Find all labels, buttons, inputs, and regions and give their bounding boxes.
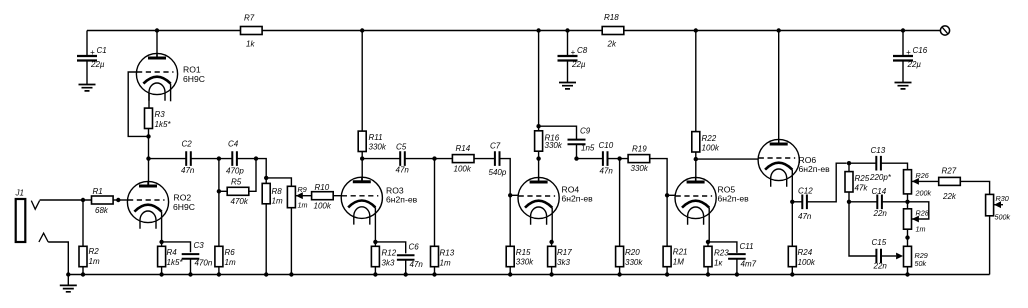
svg-text:1M: 1M	[673, 258, 684, 267]
svg-text:R30: R30	[996, 194, 1009, 203]
svg-text:330k: 330k	[545, 141, 563, 150]
junction R28-R29	[905, 235, 909, 239]
svg-text:470p: 470p	[226, 167, 244, 176]
resistor R20	[616, 246, 644, 267]
wire R28 to R29	[907, 229, 909, 246]
wire R16 column to rail	[538, 31, 540, 131]
resistor R18	[602, 13, 624, 49]
potentiometer R28	[904, 209, 912, 229]
capacitor C15	[872, 238, 888, 271]
wire R29 to rail	[907, 267, 909, 275]
capacitor C9	[568, 127, 595, 153]
wire C6 to rail	[405, 260, 407, 275]
capacitor C2	[181, 140, 195, 176]
junction rail-C11	[735, 272, 739, 276]
ground at C8	[559, 83, 576, 89]
wire anode to C10	[577, 158, 603, 160]
capacitor C4	[226, 140, 244, 176]
junction R5 left	[217, 189, 221, 193]
tube RO6 6н2п triode	[758, 139, 830, 201]
wire to R5	[219, 190, 227, 192]
ground main	[60, 285, 77, 291]
junction R6 tap	[217, 156, 221, 160]
wire into RO5 grid	[667, 194, 676, 196]
svg-text:6H9C: 6H9C	[173, 202, 195, 212]
svg-text:R22: R22	[702, 134, 717, 143]
tube RO1 6H9C triode	[136, 53, 205, 101]
junction R26-R28 node	[905, 200, 909, 204]
svg-text:R14: R14	[456, 144, 471, 153]
svg-text:3k3: 3k3	[382, 259, 395, 268]
resistor R15	[506, 246, 534, 266]
resistor R25	[845, 172, 870, 193]
junction rail-R16	[536, 28, 540, 32]
junction RO4 anode node	[536, 156, 540, 160]
wire C15 to R29 wiper	[881, 255, 896, 257]
svg-text:47n: 47n	[600, 167, 614, 176]
svg-text:1m: 1m	[298, 201, 308, 210]
svg-text:1m: 1m	[89, 257, 100, 266]
junction rail-ground	[66, 272, 70, 276]
svg-text:+: +	[571, 48, 576, 57]
junction rail-C3	[188, 272, 192, 276]
wire R26 bottom stub	[907, 194, 909, 202]
svg-text:+: +	[906, 48, 911, 57]
svg-text:50k: 50k	[915, 259, 927, 268]
capacitor C6	[397, 243, 423, 270]
tube RO3 6н2п triode	[341, 177, 417, 242]
svg-text:R28: R28	[916, 209, 929, 218]
svg-text:1m: 1m	[272, 197, 283, 206]
svg-text:47n: 47n	[410, 260, 424, 269]
resistor R6	[215, 246, 236, 267]
svg-text:RO2: RO2	[174, 193, 192, 203]
resistor R3	[145, 108, 172, 129]
svg-text:C11: C11	[740, 242, 754, 251]
capacitor C10	[599, 141, 614, 176]
svg-text:2k: 2k	[607, 40, 617, 49]
wire cathode to R12	[374, 242, 376, 246]
capacitor C13	[869, 146, 892, 182]
junction at RO2 grid wire	[116, 198, 120, 202]
svg-text:22n: 22n	[873, 209, 888, 218]
junction R1-R2	[81, 198, 85, 202]
wire to C14	[849, 201, 877, 203]
svg-text:100k: 100k	[454, 165, 472, 174]
wire C7 to RO4 grid	[500, 159, 511, 196]
wire RO6 anode to rail	[778, 31, 780, 145]
svg-text:R18: R18	[604, 13, 619, 22]
wire R22 column to rail	[695, 31, 697, 132]
wire R10 to RO3 grid	[333, 195, 341, 197]
svg-text:R5: R5	[231, 178, 242, 187]
wire R21 to rail	[666, 267, 668, 275]
svg-text:47k: 47k	[855, 184, 869, 193]
wire R16 to RO4 anode	[538, 151, 540, 183]
svg-text:6H9C: 6H9C	[183, 74, 205, 84]
svg-text:C12: C12	[798, 187, 813, 196]
capacitor C12	[798, 187, 813, 222]
wire R15 column	[509, 195, 511, 246]
wire R20 to rail	[619, 267, 621, 275]
junction rail-R11	[360, 28, 364, 32]
wire RO1 cathode to R3	[148, 93, 150, 108]
potentiometer R30	[986, 194, 994, 215]
wire C13 to R26	[881, 163, 908, 170]
wire R25 top stub	[848, 163, 850, 171]
resistor R19	[628, 145, 650, 174]
svg-text:6н2п-ев: 6н2п-ев	[799, 164, 831, 174]
svg-text:C4: C4	[228, 140, 239, 149]
svg-text:R27: R27	[942, 167, 957, 176]
svg-text:C7: C7	[490, 142, 501, 151]
wire R15 to rail	[509, 267, 511, 275]
ground at C16	[895, 83, 912, 89]
junction R20 tap	[617, 156, 621, 160]
svg-text:1n5: 1n5	[581, 144, 595, 153]
junction rail-R29	[905, 272, 909, 276]
wire cathode to R23	[707, 242, 709, 246]
wire R30 wiper stub	[994, 204, 1003, 206]
junction rail-R4	[159, 272, 163, 276]
svg-text:RO1: RO1	[183, 65, 201, 75]
wire R14 to C7	[474, 158, 495, 160]
wire anode node to C2	[149, 158, 187, 160]
wire R17 to rail	[551, 267, 553, 275]
tube RO5 6н2п triode	[675, 177, 749, 242]
svg-text:22µ: 22µ	[907, 60, 922, 69]
svg-text:470n: 470n	[195, 259, 213, 268]
R29 wiper arrow	[896, 253, 903, 260]
junction rail-R24	[790, 272, 794, 276]
wire R11 to rail	[361, 31, 363, 132]
svg-text:330k: 330k	[516, 257, 534, 266]
junction R5 right	[254, 156, 258, 160]
wire into RO4 grid	[510, 194, 518, 196]
wire C1 to ground	[86, 61, 88, 85]
wire C16 to rail	[902, 31, 904, 57]
resistor R13	[431, 246, 455, 267]
junction R25 top	[847, 161, 851, 165]
wire R3 to RO2 anode	[148, 129, 150, 187]
svg-text:C2: C2	[182, 140, 193, 149]
svg-text:100k: 100k	[798, 258, 816, 267]
svg-text:R2: R2	[89, 247, 100, 256]
wire RO1 anode to rail	[156, 31, 158, 59]
junction rail-R23	[706, 272, 710, 276]
svg-text:330k: 330k	[625, 258, 643, 267]
wire top supply rail	[87, 30, 940, 32]
capacitor C14	[872, 187, 888, 218]
resistor R11	[358, 131, 387, 151]
wire R22 to RO5 anode	[695, 152, 697, 183]
junction RO2 anode node	[146, 156, 150, 160]
svg-text:3k3: 3k3	[557, 258, 570, 267]
capacitor C8	[558, 46, 588, 69]
svg-text:330k: 330k	[631, 164, 649, 173]
wire C8 to rail	[567, 31, 569, 57]
svg-text:C5: C5	[396, 143, 407, 152]
svg-text:220p*: 220p*	[869, 173, 892, 182]
svg-text:+: +	[90, 48, 95, 57]
wire C5 to R14	[405, 158, 453, 160]
junction RO4 cathode	[549, 240, 553, 244]
svg-text:R9: R9	[298, 185, 307, 194]
wire to R28	[907, 202, 909, 209]
svg-text:47n: 47n	[181, 166, 195, 175]
junction rail-R13	[432, 272, 436, 276]
svg-text:R20: R20	[625, 248, 640, 257]
wire R2 top	[82, 200, 84, 246]
wire R13 column	[434, 159, 436, 247]
capacitor C1	[77, 46, 107, 69]
wire C16 to ground	[902, 61, 904, 83]
svg-text:C10: C10	[599, 141, 614, 150]
svg-text:22µ: 22µ	[90, 60, 105, 69]
wire R23 to rail	[707, 267, 709, 275]
wire bottom ground rail	[68, 274, 989, 276]
resistor R8	[262, 183, 283, 205]
jack tip contact	[31, 201, 39, 210]
junction rail-C6	[404, 272, 408, 276]
svg-text:R3: R3	[155, 110, 166, 119]
svg-text:R17: R17	[557, 248, 572, 257]
svg-text:330k: 330k	[369, 143, 387, 152]
resistor R16	[535, 131, 563, 151]
junction RO3 anode node	[360, 156, 364, 160]
wire to C11	[708, 242, 737, 253]
capacitor C7	[489, 142, 507, 178]
svg-text:C13: C13	[871, 146, 886, 155]
tube RO2 6H9C triode	[127, 181, 195, 242]
wire RO5 anode to RO6 grid	[696, 158, 759, 160]
svg-text:1k5*: 1k5*	[155, 120, 172, 129]
resistor R17	[548, 246, 573, 267]
svg-text:1к: 1к	[714, 259, 723, 268]
junction R15 tap	[508, 193, 512, 197]
junction R25 bottom C14 C15	[847, 200, 851, 204]
svg-text:22n: 22n	[873, 262, 888, 271]
junction R8-R9	[264, 176, 268, 180]
wire R27 to R30	[960, 181, 989, 194]
wire C8 to ground	[567, 61, 569, 83]
resistor R7	[241, 14, 263, 49]
wire R13 to rail	[434, 267, 436, 275]
wire R6 column	[218, 159, 220, 247]
potentiometer R29	[904, 246, 928, 268]
svg-text:R26: R26	[916, 171, 929, 180]
potentiometer R9	[287, 186, 295, 207]
R9 wiper arrow	[296, 185, 308, 210]
svg-text:4m7: 4m7	[741, 260, 757, 269]
svg-text:C1: C1	[97, 46, 107, 55]
svg-text:R25: R25	[855, 174, 870, 183]
svg-text:C8: C8	[577, 46, 588, 55]
wire jack sleeve to ground rail	[48, 242, 68, 275]
wire C2 to C4	[191, 158, 233, 160]
potentiometer R26	[904, 170, 912, 194]
wire R4 to rail	[161, 267, 163, 275]
wire R11 to RO3 anode	[361, 152, 363, 182]
svg-text:C15: C15	[872, 238, 887, 247]
wire C12 to tone network	[807, 163, 847, 202]
wire feedback to RO1 grid	[128, 72, 148, 136]
svg-text:1m: 1m	[916, 225, 926, 234]
wire R8 to rail	[265, 204, 267, 275]
wire C9 to anode node	[576, 144, 578, 158]
R30 wiper arrow	[994, 194, 1010, 222]
jack sleeve contact	[39, 233, 48, 242]
junction rail-R22	[694, 28, 698, 32]
junction RO5 cathode	[706, 240, 710, 244]
junction rail-R17	[549, 272, 553, 276]
svg-text:R13: R13	[440, 249, 455, 258]
svg-text:200k: 200k	[915, 189, 932, 198]
wire ground stub	[67, 275, 69, 286]
wire R26 wiper to R27	[912, 180, 939, 182]
svg-text:470k: 470k	[231, 197, 249, 206]
wire to C9	[539, 126, 577, 140]
junction rail-C16	[901, 28, 905, 32]
wire R25 bottom stub	[848, 192, 850, 202]
svg-text:R6: R6	[225, 248, 236, 257]
R26 wiper arrow	[912, 171, 932, 198]
svg-text:22µ: 22µ	[571, 60, 586, 69]
wire C1 to rail	[86, 31, 88, 57]
wire anode to C5	[362, 158, 400, 160]
wire C10 to R19	[608, 158, 629, 160]
svg-text:R12: R12	[382, 249, 397, 258]
wire R9 wiper to R10	[296, 195, 312, 197]
resistor R10	[312, 183, 334, 211]
wire to R8	[265, 178, 267, 183]
junction R13 tap	[432, 156, 436, 160]
svg-text:C16: C16	[913, 46, 928, 55]
svg-text:47n: 47n	[396, 166, 410, 175]
junction RO2 cathode	[159, 240, 163, 244]
junction rail-RO6	[777, 28, 781, 32]
svg-text:6н2п-ев: 6н2п-ев	[386, 195, 418, 205]
capacitor C5	[396, 143, 410, 175]
svg-text:R1: R1	[93, 187, 103, 196]
resistor R5	[227, 178, 249, 207]
svg-text:R24: R24	[798, 248, 813, 257]
capacitor C11	[728, 242, 757, 269]
svg-text:R21: R21	[673, 248, 688, 257]
wire cathode to R24	[791, 202, 793, 247]
wire R6 to rail	[218, 267, 220, 275]
svg-text:1k: 1k	[246, 40, 255, 49]
connector J1 input jack	[15, 189, 26, 243]
resistor R24	[788, 246, 816, 267]
resistor R27	[939, 167, 961, 202]
wire C14 to R26 bottom	[882, 201, 908, 203]
wire R21 column	[666, 195, 668, 246]
svg-text:R15: R15	[516, 248, 531, 257]
wire R2 to rail	[82, 267, 84, 275]
junction rail-R6	[217, 272, 221, 276]
wire R30 to rail	[989, 216, 991, 275]
wire R9 to rail	[290, 208, 292, 275]
wire to C3	[162, 242, 191, 252]
svg-text:540p: 540p	[489, 168, 507, 177]
wire R20 column	[619, 159, 621, 247]
resistor R4	[158, 246, 184, 267]
resistor R2	[79, 246, 100, 266]
capacitor C3	[182, 241, 213, 268]
wire cathode to R17	[551, 242, 553, 246]
svg-text:47n: 47n	[798, 212, 812, 221]
junction rail-R2	[81, 272, 85, 276]
wire R1 to RO2 grid	[113, 199, 127, 201]
svg-text:C6: C6	[409, 243, 420, 252]
junction rail-R8	[264, 272, 268, 276]
tube RO4 6н2п triode	[518, 177, 593, 242]
wire to R9	[266, 178, 291, 186]
wire jack tip to R1	[40, 199, 92, 201]
R28 wiper arrow	[912, 209, 929, 234]
svg-text:6н2п-ев: 6н2п-ев	[718, 194, 750, 204]
junction RO6 cathode	[790, 200, 794, 204]
wire C4 to divider node	[237, 159, 266, 178]
wire R19 to RO5 grid	[650, 159, 667, 196]
svg-text:J1: J1	[15, 189, 24, 198]
junction rail-R9	[289, 272, 293, 276]
svg-text:1k5*: 1k5*	[167, 258, 184, 267]
wire to C6	[375, 242, 405, 254]
junction rail-R15	[508, 272, 512, 276]
svg-text:R11: R11	[369, 133, 383, 142]
svg-text:1m: 1m	[440, 259, 451, 268]
svg-text:6н2п-ев: 6н2п-ев	[562, 194, 594, 204]
svg-text:R4: R4	[167, 248, 178, 257]
junction RO3 cathode	[373, 240, 377, 244]
terminal V+ supply	[940, 26, 949, 35]
svg-text:500k: 500k	[995, 213, 1011, 222]
junction C9 bottom	[574, 156, 578, 160]
svg-text:R19: R19	[632, 145, 647, 154]
junction R3 feedback tap	[146, 134, 150, 138]
svg-text:R23: R23	[714, 249, 729, 258]
wire cathode to R4	[161, 242, 163, 246]
wire C11 to rail	[736, 259, 738, 275]
capacitor C16	[893, 46, 928, 69]
wire C3 to rail	[190, 259, 192, 275]
svg-text:R7: R7	[244, 14, 255, 23]
wire C15 branch	[849, 202, 876, 256]
svg-text:100k: 100k	[702, 144, 720, 153]
junction RO6 grid tap	[694, 157, 698, 161]
resistor R1	[92, 187, 114, 215]
resistor R14	[452, 144, 474, 174]
svg-text:C3: C3	[194, 241, 205, 250]
resistor R12	[371, 246, 396, 267]
junction rail-R21	[665, 272, 669, 276]
wire R24 to rail	[791, 267, 793, 275]
wire to C13	[849, 162, 876, 164]
svg-text:100k: 100k	[314, 202, 332, 211]
resistor R21	[663, 246, 687, 266]
junction rail-C8	[565, 28, 569, 32]
svg-text:R8: R8	[272, 187, 283, 196]
ground at C1	[79, 85, 96, 91]
junction C9 top	[536, 124, 540, 128]
svg-text:1m: 1m	[225, 258, 236, 267]
svg-text:C14: C14	[872, 187, 887, 196]
junction rail-R12	[373, 272, 377, 276]
svg-text:22k: 22k	[942, 192, 957, 201]
wire R12 to rail	[374, 267, 376, 275]
